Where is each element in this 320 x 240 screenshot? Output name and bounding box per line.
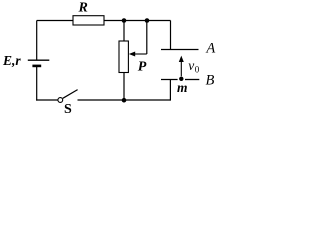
wire bottom right segment [78,99,171,101]
svg-text:B: B [206,73,215,89]
wire P branch lower [123,73,125,101]
particle m dot [179,77,183,81]
svg-text:P: P [138,59,147,74]
wire bottom left segment [36,99,58,101]
battery E,r short plate [32,65,41,68]
svg-text:m: m [177,80,188,95]
svg-text:0: 0 [195,64,200,74]
wire P branch upper [123,21,125,42]
junction dot top left of P branch [122,18,127,23]
switch S blade [63,90,78,99]
svg-text:E,r: E,r [2,53,21,68]
resistor R box [73,16,104,25]
plate A [161,49,199,51]
svg-text:S: S [64,102,72,117]
svg-text:v: v [188,58,194,73]
plate B right segment [185,79,199,81]
velocity v0 arrow [179,56,184,77]
battery E,r long plate [28,59,50,61]
wire right-top vertical to plate A [170,21,172,50]
wire right-bottom vertical to plate B [169,80,171,101]
junction dot bottom of P branch [122,98,127,103]
plate B left segment [161,79,178,81]
svg-text:A: A [205,40,215,56]
junction dot top of wiper branch [145,18,150,23]
wire wiper vertical stem [146,21,148,55]
wire top horizontal [37,20,171,22]
wire left vertical upper [36,21,38,61]
svg-text:R: R [78,1,88,16]
switch S contact circle [58,98,63,103]
wire left vertical lower [36,66,38,101]
potentiometer P box [119,41,128,73]
wiper arrow [129,52,147,57]
